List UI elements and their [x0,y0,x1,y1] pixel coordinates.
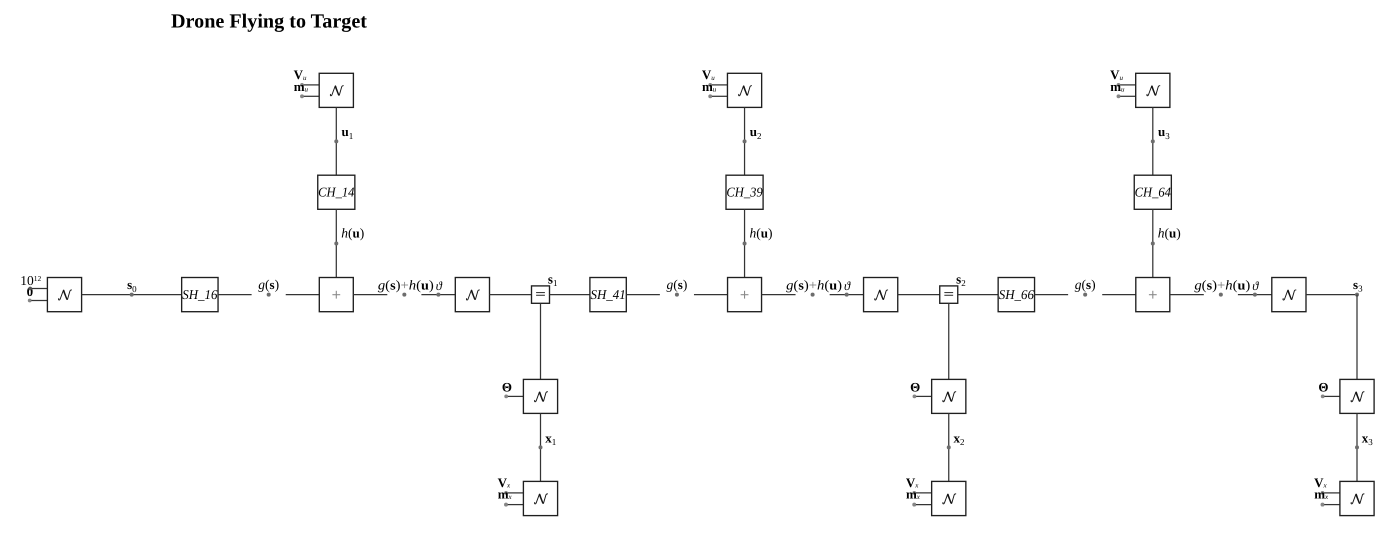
clamp dot V_u unit1 [300,83,319,87]
factor node SH_66 [998,278,1034,312]
label h(u) unit3 [1158,225,1181,240]
factor node +3 (addition) [1136,278,1170,312]
svg-text:Drone Flying to Target: Drone Flying to Target [171,10,367,32]
dot s0 [130,293,134,297]
wire theta unit1 [421,294,455,296]
wire equality down unit1 [540,303,542,379]
dot s3 (corner) [1355,293,1359,297]
dot h(u) unit3 [1151,242,1155,246]
wire u1 [335,107,337,175]
svg-text:ϑ: ϑ [1252,279,1259,293]
dot h(u) unit2 [743,242,747,246]
svg-text:g(s)+h(u): g(s)+h(u) [378,277,434,292]
wire equality to SH_66 [958,294,998,296]
clamp dot V_x unit1 [504,491,523,495]
wire theta unit3 [1238,294,1272,296]
wire s3 vertical [1356,295,1358,380]
clamp dot m_u unit1 [300,94,319,98]
svg-text:Θ: Θ [910,379,920,394]
clamp dot m_x unit1 [504,503,523,507]
label Theta unit3 [1318,379,1328,394]
factor node SH_16 [182,278,218,312]
dot u3 [1151,139,1155,143]
factor node N_x3 observation (Gaussian) [1340,379,1374,413]
wire x1 [540,413,542,481]
wire g(s) unit3 right segment [1102,294,1136,296]
factor node N_x1 observation (Gaussian) [523,379,557,413]
label s0 [127,277,137,294]
label u2 [750,124,762,141]
dot g(s) unit3 [1083,293,1087,297]
svg-text:g(s): g(s) [258,277,279,292]
clamp dot Theta unit3 [1321,395,1340,399]
dot x2 [947,445,951,449]
label 10^12 [20,273,41,288]
wire s0 [82,294,182,296]
wire equality down unit2 [948,303,950,379]
factor node N_s1 process (Gaussian) [455,278,489,312]
clamp dot V_x unit3 [1321,491,1340,495]
label m_x unit1 [498,487,513,502]
clamp dot V_u unit2 [708,83,727,87]
factor node SH_41 [590,278,626,312]
label x3 [1362,431,1374,448]
label V_u unit1 [294,67,307,82]
factor node CH_64 [1134,175,1171,209]
factor node +1 (addition) [319,278,353,312]
wire g(s)+h(u) unit2 [762,294,796,296]
svg-text:CH_64: CH_64 [1135,185,1172,200]
wire into equality unit2 [898,294,940,296]
dot g(s)+h(u) unit3 [1219,293,1223,297]
wire h(u) unit1 [335,209,337,277]
clamp dot m_x unit3 [1321,503,1340,507]
wire g(s) unit2 right segment [694,294,728,296]
dot g(s)+h(u) unit2 [811,293,815,297]
factor node CH_39 [726,175,763,209]
svg-text:ϑ: ϑ [844,279,851,293]
equality node s2 [940,286,958,303]
clamp 0 dot [28,299,47,303]
wire g(s) unit1 left segment [218,294,252,296]
label h(u) unit2 [750,225,773,240]
factor node +2 (addition) [728,278,762,312]
svg-text:h(u): h(u) [341,225,364,240]
clamp dot m_x unit2 [912,503,931,507]
wire h(u) unit2 [744,209,746,277]
svg-text:g(s): g(s) [667,277,688,292]
factor node N_x3 measurement prior (Gaussian) [1340,481,1374,515]
equality node s1 [532,286,550,303]
svg-text:ϑ: ϑ [436,279,443,293]
wire s3 horizontal [1306,294,1357,296]
wire g(s) unit2 left segment [626,294,660,296]
svg-text:CH_14: CH_14 [318,185,355,200]
label u3 [1158,124,1170,141]
label g(s)+h(u) unit1 [378,277,434,292]
svg-text:SH_41: SH_41 [591,287,626,302]
dot x1 [539,445,543,449]
label x1 [545,431,556,448]
svg-text:g(s)+h(u): g(s)+h(u) [1194,277,1250,292]
label vartheta unit1 [436,279,443,293]
label x2 [954,431,965,448]
wire g(s) unit1 right segment [286,294,320,296]
label Theta unit1 [502,379,512,394]
label s2 [956,271,966,288]
label V_x unit1 [498,475,511,490]
label V_u unit2 [702,67,715,82]
wire x3 [1356,413,1358,481]
clamp dot Theta unit2 [913,395,932,399]
wire g(s)+h(u) unit3 [1170,294,1204,296]
factor node N_s3 process (Gaussian) [1272,278,1306,312]
svg-text:CH_39: CH_39 [726,185,763,200]
factor node N_x2 observation (Gaussian) [932,379,966,413]
factor node N_s2 process (Gaussian) [864,278,898,312]
clamp dot m_u unit2 [708,94,727,98]
label m_u unit2 [702,79,717,94]
wire into equality unit1 [489,294,531,296]
factor node N_u2 control prior (Gaussian) [727,73,761,107]
label V_u unit3 [1110,67,1123,82]
label g(s) unit3 [1075,277,1096,292]
label g(s)+h(u) unit2 [786,277,842,292]
svg-text:h(u): h(u) [1158,225,1181,240]
label V_x unit2 [906,475,919,490]
factor node N_u3 control prior (Gaussian) [1136,73,1170,107]
dot g(s)+h(u) unit1 [402,293,406,297]
svg-text:Θ: Θ [1318,379,1328,394]
clamp dot Theta unit1 [504,395,523,399]
label m_x unit3 [1314,487,1329,502]
factor node N_u1 control prior (Gaussian) [319,73,353,107]
dot x3 [1355,445,1359,449]
clamp dot m_u unit3 [1117,94,1136,98]
label 0 [27,284,34,299]
clamp 10^12 dot [28,287,47,291]
label vartheta unit3 [1252,279,1259,293]
wire theta unit2 [830,294,864,296]
wire x2 [948,413,950,481]
wire g(s) unit3 left segment [1035,294,1069,296]
label vartheta unit2 [844,279,851,293]
wire u3 [1152,107,1154,175]
factor node N_x1 measurement prior (Gaussian) [523,481,557,515]
factor node N_s0 prior (Gaussian) [47,278,81,312]
factor node N_x2 measurement prior (Gaussian) [932,481,966,515]
label V_x unit3 [1314,475,1327,490]
wire g(s)+h(u) unit1 [353,294,387,296]
label g(s)+h(u) unit3 [1194,277,1250,292]
svg-text:0: 0 [27,284,34,299]
svg-text:Θ: Θ [502,379,512,394]
label m_x unit2 [906,487,921,502]
label m_u unit3 [1110,79,1125,94]
dot g(s) unit1 [267,293,271,297]
wire h(u) unit3 [1152,209,1154,277]
label g(s) unit2 [667,277,688,292]
label u1 [342,124,354,141]
label Theta unit2 [910,379,920,394]
dot vartheta unit1 [436,293,440,297]
dot vartheta unit3 [1253,293,1257,297]
svg-text:SH_66: SH_66 [999,287,1034,302]
label h(u) unit1 [341,225,364,240]
clamp dot V_u unit3 [1117,83,1136,87]
label g(s) unit1 [258,277,279,292]
svg-text:g(s): g(s) [1075,277,1096,292]
label s3 [1353,277,1363,294]
wire u2 [744,107,746,175]
dot u1 [334,139,338,143]
dot vartheta unit2 [845,293,849,297]
factor node CH_14 [318,175,355,209]
dot u2 [743,139,747,143]
dot h(u) unit1 [334,242,338,246]
clamp dot V_x unit2 [912,491,931,495]
svg-text:h(u): h(u) [750,225,773,240]
wire equality to SH_41 [550,294,590,296]
label s1 [548,271,558,288]
svg-text:g(s)+h(u): g(s)+h(u) [786,277,842,292]
svg-text:SH_16: SH_16 [182,287,217,302]
dot g(s) unit2 [675,293,679,297]
label m_u unit1 [294,79,309,94]
